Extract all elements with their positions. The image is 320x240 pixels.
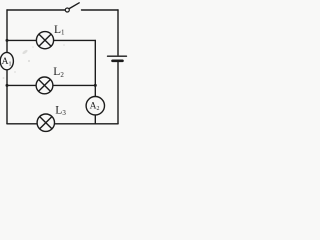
wire: right vertical down to battery <box>117 10 119 55</box>
wire: top-left horizontal run from corner to switch <box>7 9 65 11</box>
wire: bottom horizontal run <box>7 123 118 125</box>
lamp L1 circle <box>36 32 53 49</box>
lamp L3 circle <box>37 114 54 131</box>
wire: branch L1 horizontal at y=40 <box>7 39 95 41</box>
wire: top-right horizontal from switch to right corner <box>82 9 119 11</box>
ammeter A1 circle <box>0 52 13 69</box>
lamp L1 cross <box>39 34 51 46</box>
switch S lever arm <box>69 3 79 9</box>
node: junction dot left/L2 <box>6 84 9 87</box>
background <box>0 0 132 135</box>
battery B negative plate (short thick) <box>113 59 123 62</box>
ammeter A2 circle <box>86 97 104 115</box>
battery B positive plate (long) <box>108 55 127 57</box>
node: junction dot left/L1 <box>6 39 9 42</box>
wire: short vertical from A2 to bottom wire <box>94 115 96 124</box>
lamp L2 circle <box>36 77 53 94</box>
switch S (open) pivot contact <box>65 8 69 12</box>
wire: vertical from L1 branch corner down to ammeter A2 <box>94 40 96 96</box>
wire: right vertical from battery to bottom corner <box>117 62 119 124</box>
lamp L2 cross <box>39 80 51 92</box>
wire: left vertical from A1 down to bottom corner <box>6 70 8 124</box>
wire: branch L2 horizontal at y=85.4 <box>7 84 95 86</box>
node: junction dot L2/vertical <box>94 84 97 87</box>
wire: left vertical from top corner to ammeter A1 <box>6 10 8 53</box>
lamp L3 cross <box>40 117 52 129</box>
